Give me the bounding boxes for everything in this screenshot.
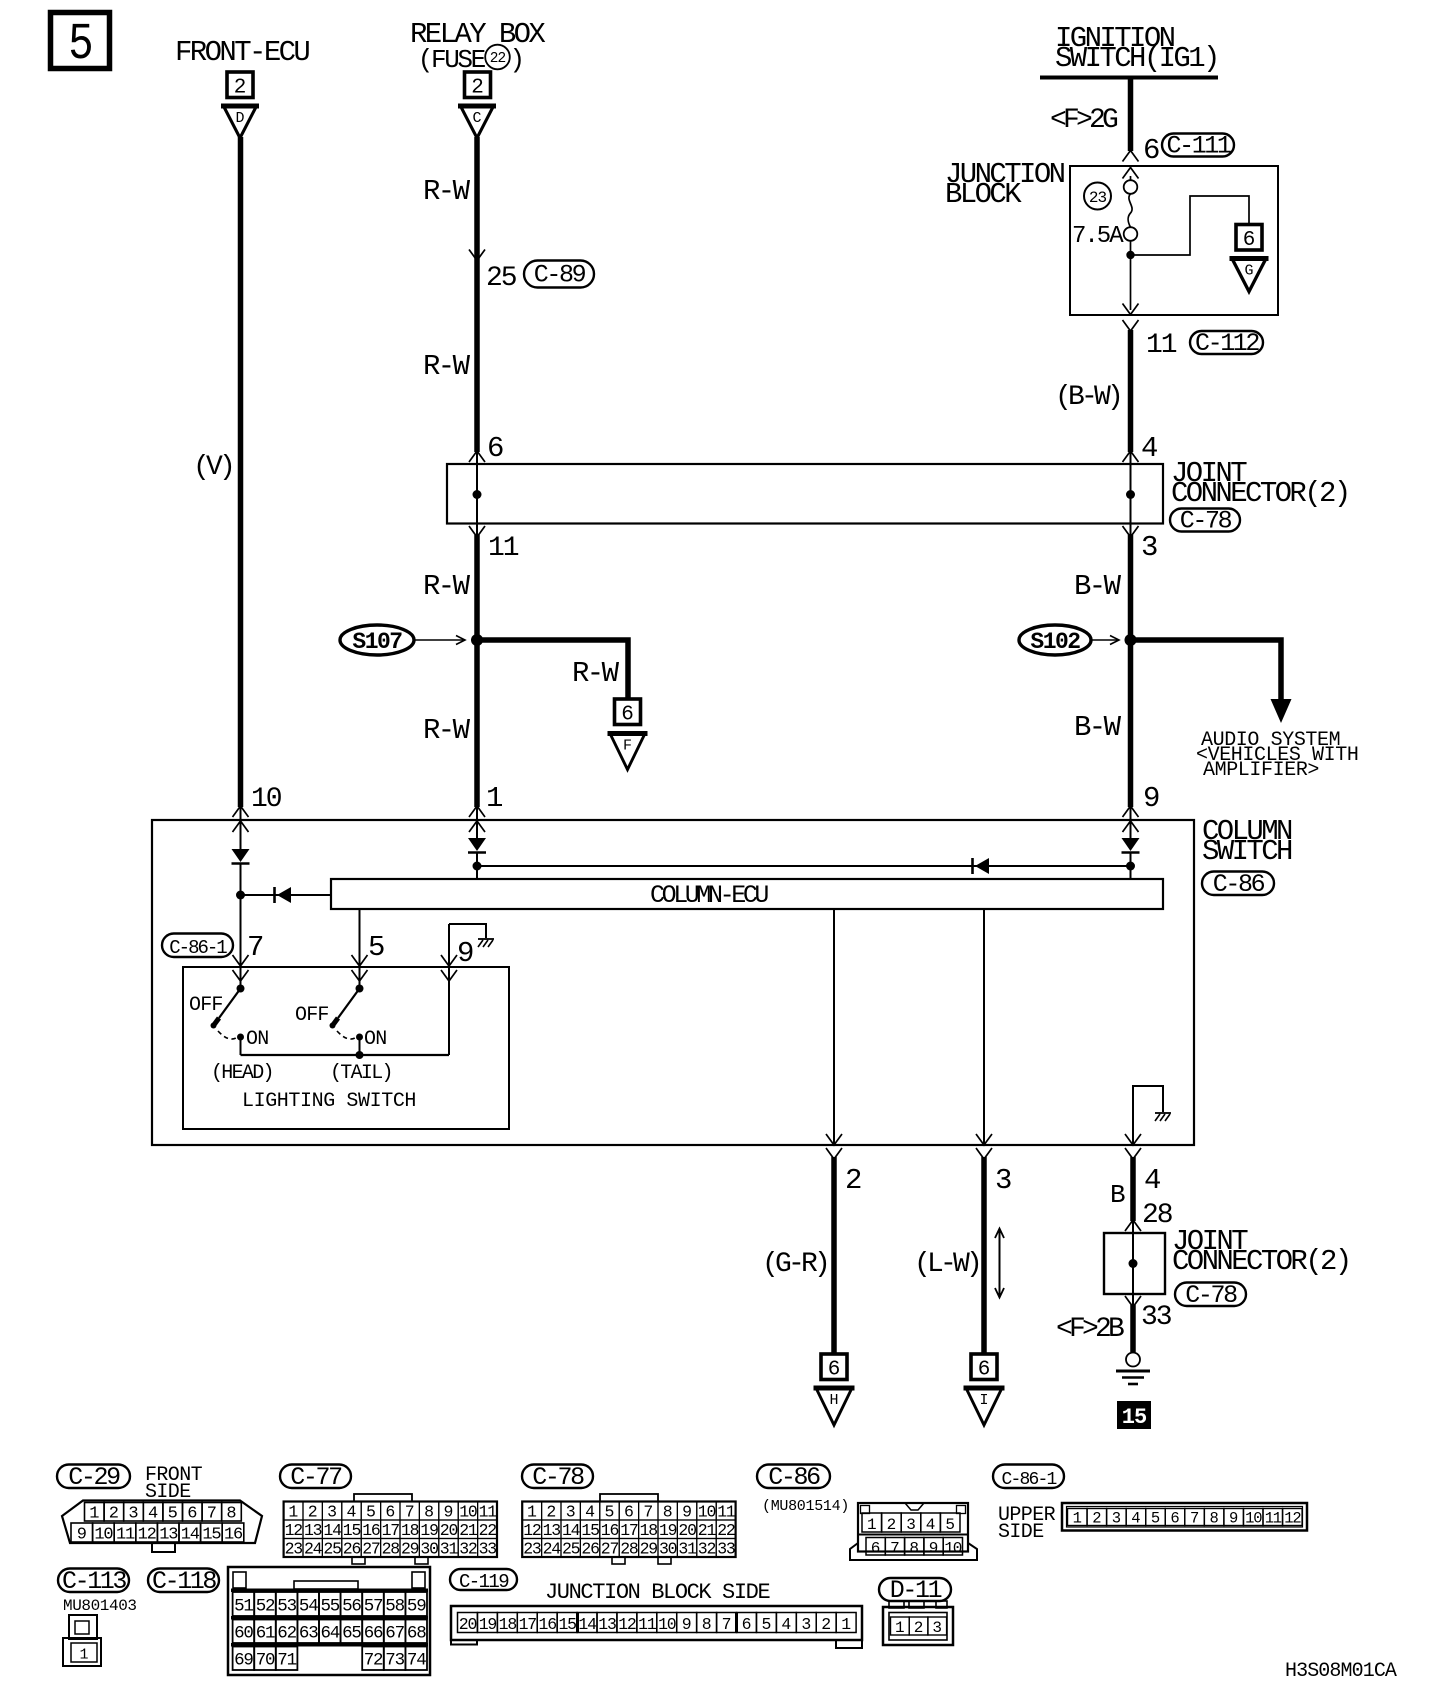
svg-text:7: 7 (405, 1502, 415, 1521)
lighting switch box (183, 967, 509, 1129)
column switch box C-86 (152, 820, 1194, 1145)
junction block box (1070, 166, 1278, 315)
connector drawing C-77 (354, 1494, 412, 1502)
svg-text:74: 74 (407, 1651, 426, 1671)
svg-text:65: 65 (342, 1624, 361, 1644)
svg-text:62: 62 (277, 1624, 296, 1644)
svg-text:11: 11 (1265, 1510, 1282, 1528)
svg-text:1: 1 (79, 1647, 88, 1664)
node junction block splice (1126, 251, 1134, 259)
connector box 2 (FRONT-ECU) (227, 72, 253, 98)
svg-text:26: 26 (581, 1539, 599, 1558)
svg-text:12: 12 (1284, 1510, 1301, 1528)
lighting entry chevrons pin5 (352, 955, 368, 966)
body ground symbol (1126, 1353, 1140, 1367)
svg-text:2: 2 (546, 1502, 556, 1521)
diode pin 9 line (1130, 806, 1132, 838)
svg-text:3: 3 (995, 1164, 1012, 1197)
svg-text:4: 4 (585, 1502, 595, 1521)
svg-text:18: 18 (499, 1615, 517, 1634)
svg-text:8: 8 (226, 1505, 236, 1524)
connector drawing C-86 (858, 1503, 968, 1552)
switch TAIL ON contact (356, 1034, 363, 1041)
ground reference 15 black box (1117, 1401, 1151, 1429)
wire pin 4 ground hook (1133, 1086, 1163, 1144)
svg-text:C: C (472, 110, 481, 127)
svg-text:20: 20 (678, 1521, 696, 1540)
svg-text:54: 54 (299, 1597, 318, 1617)
svg-text:7: 7 (207, 1505, 217, 1524)
svg-text:ON: ON (364, 1028, 386, 1051)
svg-text:17: 17 (519, 1615, 537, 1634)
svg-text:6: 6 (624, 1502, 634, 1521)
svg-text:51: 51 (234, 1597, 253, 1617)
arrow S102 to node (1091, 639, 1118, 641)
svg-text:LIGHTING SWITCH: LIGHTING SWITCH (242, 1090, 416, 1113)
wire TAIL ON to bus (359, 1037, 361, 1055)
diode pin 1 line (476, 806, 478, 838)
svg-text:32: 32 (698, 1539, 716, 1558)
svg-text:C-86-1: C-86-1 (1001, 1470, 1056, 1490)
page number box 5 (51, 13, 110, 69)
svg-text:C-112: C-112 (1195, 329, 1259, 358)
wire pin 3 output (981, 1157, 987, 1354)
svg-text:19: 19 (479, 1615, 497, 1634)
internal bus wire with diode (477, 865, 1131, 867)
svg-text:3: 3 (932, 1619, 942, 1637)
svg-text:15: 15 (581, 1521, 599, 1540)
svg-text:21: 21 (698, 1521, 717, 1540)
svg-text:28: 28 (382, 1539, 400, 1558)
lighting entry chevrons pin7 (233, 955, 249, 966)
wire to body ground (1130, 1305, 1136, 1352)
svg-text:29: 29 (401, 1539, 419, 1558)
svg-text:9: 9 (682, 1615, 692, 1634)
svg-text:1: 1 (1073, 1510, 1082, 1528)
svg-text:5: 5 (1151, 1510, 1160, 1528)
svg-text:9: 9 (929, 1540, 939, 1558)
svg-text:7: 7 (890, 1540, 900, 1558)
wire through joint connector right (1130, 452, 1132, 536)
svg-text:1: 1 (89, 1505, 99, 1524)
wire column-ecu to lighting switch pin 5 (359, 909, 361, 988)
svg-text:9: 9 (682, 1502, 692, 1521)
svg-text:R-W: R-W (423, 175, 471, 208)
svg-text:22: 22 (479, 1521, 497, 1540)
svg-text:(V): (V) (193, 452, 232, 483)
svg-text:7: 7 (643, 1502, 653, 1521)
double arrow (L-W) (999, 1230, 1001, 1296)
svg-text:23: 23 (285, 1539, 303, 1558)
node left internal (236, 891, 245, 900)
svg-text:11: 11 (488, 533, 519, 564)
svg-text:32: 32 (459, 1539, 477, 1558)
connector C-89 pass-through chevron (469, 250, 485, 261)
svg-text:3: 3 (801, 1615, 811, 1634)
svg-text:16: 16 (539, 1615, 557, 1634)
svg-text:JUNCTION BLOCK SIDE: JUNCTION BLOCK SIDE (545, 1580, 770, 1605)
lighting switch output bus (241, 1054, 450, 1056)
svg-text:13: 13 (543, 1521, 561, 1540)
svg-text:BLOCK: BLOCK (945, 178, 1022, 211)
svg-text:24: 24 (304, 1539, 323, 1558)
svg-text:C-78: C-78 (1185, 1281, 1237, 1310)
svg-text:CONNECTOR(2): CONNECTOR(2) (1172, 1245, 1350, 1278)
svg-text:73: 73 (385, 1651, 404, 1671)
svg-text:9: 9 (1229, 1510, 1238, 1528)
svg-text:5: 5 (366, 1502, 376, 1521)
svg-text:5: 5 (68, 16, 93, 74)
svg-text:29: 29 (640, 1539, 658, 1558)
svg-text:H3S08M01CA: H3S08M01CA (1285, 1660, 1397, 1683)
svg-text:1: 1 (841, 1615, 851, 1634)
svg-text:3: 3 (906, 1516, 916, 1534)
switch TAIL common node (356, 985, 364, 993)
svg-text:6: 6 (385, 1502, 395, 1521)
svg-text:6: 6 (978, 1358, 991, 1381)
svg-text:C-119: C-119 (459, 1571, 509, 1593)
svg-text:R-W: R-W (572, 657, 620, 690)
svg-text:66: 66 (364, 1624, 383, 1644)
fuse 23 symbol (1130, 176, 1132, 180)
svg-text:8: 8 (702, 1615, 712, 1634)
svg-text:30: 30 (420, 1539, 438, 1558)
svg-text:5: 5 (945, 1516, 955, 1534)
svg-text:9: 9 (444, 1502, 454, 1521)
svg-text:R-W: R-W (423, 350, 471, 383)
exit chevrons x=834 (826, 1134, 842, 1145)
svg-text:19: 19 (420, 1521, 438, 1540)
svg-text:18: 18 (640, 1521, 658, 1540)
connector label C-78 bottom (1175, 1283, 1246, 1307)
svg-text:F: F (623, 738, 632, 755)
svg-text:1: 1 (867, 1516, 877, 1534)
triangle D (FRONT-ECU takeoff) (224, 106, 257, 138)
svg-text:8: 8 (663, 1502, 673, 1521)
junction block exit chevrons (1123, 304, 1139, 315)
svg-text:C-86-1: C-86-1 (169, 937, 227, 959)
svg-text:30: 30 (659, 1539, 677, 1558)
connector label C-112 (1190, 331, 1263, 354)
svg-text:33: 33 (717, 1539, 735, 1558)
arrowhead audio system (1271, 699, 1292, 723)
connector box 6 (branch F) (615, 699, 641, 725)
svg-text:6: 6 (187, 1505, 197, 1524)
joint connector(2) C-78 long box (447, 464, 1163, 524)
svg-text:13: 13 (159, 1526, 178, 1545)
svg-text:B: B (1110, 1180, 1126, 1210)
svg-text:60: 60 (234, 1624, 253, 1644)
wire pin 2 output (831, 1157, 837, 1354)
svg-text:ON: ON (246, 1028, 268, 1051)
svg-text:C-29: C-29 (68, 1463, 120, 1492)
connector label C-29 (57, 1465, 130, 1489)
svg-text:12: 12 (618, 1615, 636, 1634)
svg-text:6: 6 (871, 1540, 881, 1558)
svg-text:6: 6 (621, 703, 634, 726)
svg-text:7: 7 (722, 1615, 732, 1634)
svg-text:COLUMN-ECU: COLUMN-ECU (650, 881, 768, 910)
svg-text:17: 17 (382, 1521, 400, 1540)
svg-text:7.5A: 7.5A (1072, 223, 1124, 250)
svg-text:C-77: C-77 (290, 1463, 342, 1492)
svg-text:4: 4 (1131, 1510, 1140, 1528)
svg-text:26: 26 (343, 1539, 361, 1558)
svg-text:24: 24 (543, 1539, 562, 1558)
svg-text:8: 8 (1209, 1510, 1218, 1528)
svg-text:3: 3 (1112, 1510, 1121, 1528)
switch TAIL dashed travel (337, 1031, 355, 1039)
svg-text:11: 11 (717, 1502, 736, 1521)
svg-text:33: 33 (1141, 1302, 1172, 1333)
svg-text:22: 22 (717, 1521, 735, 1540)
svg-text:R-W: R-W (423, 714, 471, 747)
svg-text:1: 1 (288, 1502, 298, 1521)
svg-text:55: 55 (320, 1597, 339, 1617)
wire junction block internal branch (1131, 196, 1250, 255)
triangle G (ground feed) (1232, 259, 1266, 292)
svg-text:(HEAD): (HEAD) (211, 1062, 273, 1085)
svg-text:10: 10 (251, 784, 282, 815)
connector box 6 (junction block) (1236, 225, 1262, 251)
svg-text:57: 57 (364, 1597, 383, 1617)
svg-text:6: 6 (487, 432, 504, 465)
svg-text:C-78: C-78 (1180, 507, 1232, 536)
connector label C-113 (58, 1569, 129, 1593)
svg-text:4: 4 (1141, 432, 1158, 465)
svg-text:23: 23 (1089, 189, 1107, 207)
svg-text:53: 53 (277, 1597, 296, 1617)
svg-text:FRONT-ECU: FRONT-ECU (175, 36, 309, 69)
svg-text:10: 10 (459, 1502, 477, 1521)
svg-text:12: 12 (285, 1521, 303, 1540)
svg-text:25: 25 (323, 1539, 341, 1558)
node joint connector right (1126, 490, 1135, 499)
wire HEAD ON to bus (240, 1037, 242, 1055)
svg-text:D: D (235, 110, 244, 127)
svg-text:9: 9 (1143, 782, 1160, 815)
svg-text:7: 7 (1190, 1510, 1199, 1528)
node right internal (1126, 862, 1135, 871)
svg-text:I: I (979, 1392, 988, 1409)
svg-text:2: 2 (914, 1619, 924, 1637)
svg-text:71: 71 (277, 1651, 296, 1671)
svg-text:52: 52 (256, 1597, 275, 1617)
svg-text:4: 4 (347, 1502, 357, 1521)
svg-text:G: G (1244, 263, 1253, 280)
svg-text:3: 3 (566, 1502, 576, 1521)
connector label C-89 (524, 261, 594, 288)
svg-text:2: 2 (308, 1502, 318, 1521)
svg-text:2: 2 (821, 1615, 831, 1634)
svg-text:11: 11 (116, 1526, 135, 1545)
wire column-ecu to pin 2 (833, 909, 835, 1144)
svg-text:20: 20 (459, 1615, 477, 1634)
wire branch to audio system (1131, 640, 1282, 701)
svg-text:10: 10 (1245, 1510, 1262, 1528)
switch HEAD blade (219, 989, 241, 1019)
svg-text:S107: S107 (352, 629, 402, 655)
connector label C-78 top (1170, 509, 1240, 532)
svg-text:16: 16 (362, 1521, 380, 1540)
svg-text:15: 15 (202, 1526, 221, 1545)
COLUMN-ECU box (331, 879, 1163, 909)
wire pin9 diode to node (1130, 852, 1132, 879)
svg-text:OFF: OFF (295, 1004, 329, 1027)
svg-text:(MU801514): (MU801514) (762, 1498, 849, 1515)
svg-text:2: 2 (234, 76, 247, 99)
svg-text:C-111: C-111 (1166, 132, 1230, 161)
svg-text:3: 3 (128, 1505, 138, 1524)
svg-text:11: 11 (479, 1502, 498, 1521)
svg-text:R-W: R-W (423, 570, 471, 603)
wire down to lighting switch pin 7 (240, 895, 242, 988)
svg-text:1: 1 (486, 782, 503, 815)
svg-text:10: 10 (944, 1540, 961, 1558)
connector drawing C-113 (69, 1615, 97, 1639)
connector drawing C-29 (62, 1501, 262, 1544)
svg-text:22: 22 (490, 51, 506, 67)
svg-text:20: 20 (440, 1521, 458, 1540)
svg-text:C-78: C-78 (532, 1463, 584, 1492)
svg-text:10: 10 (94, 1526, 113, 1545)
svg-text:59: 59 (407, 1597, 426, 1617)
svg-text:SWITCH: SWITCH (1202, 835, 1292, 868)
svg-text:58: 58 (385, 1597, 404, 1617)
svg-text:16: 16 (224, 1526, 243, 1545)
wire pin9 to ground hook (448, 924, 450, 1055)
svg-text:2: 2 (471, 76, 484, 99)
svg-text:25: 25 (486, 263, 517, 294)
svg-text:6: 6 (742, 1615, 752, 1634)
wire FRONT-ECU vertical (V) x=240 (238, 137, 244, 807)
svg-text:23: 23 (523, 1539, 541, 1558)
connector label C-119 (450, 1569, 517, 1590)
svg-text:21: 21 (459, 1521, 478, 1540)
svg-text:31: 31 (678, 1539, 697, 1558)
svg-text:6: 6 (1170, 1510, 1179, 1528)
svg-text:15: 15 (1122, 1405, 1147, 1430)
svg-text:13: 13 (304, 1521, 322, 1540)
wire through joint connector left (476, 452, 478, 536)
svg-text:<F>2B: <F>2B (1056, 1314, 1124, 1345)
lighting entry chevrons pin9 (441, 955, 457, 966)
triangle C (RELAY BOX takeoff) (461, 106, 494, 138)
switch HEAD common node (237, 985, 245, 993)
svg-text:15: 15 (343, 1521, 361, 1540)
svg-text:5: 5 (761, 1615, 771, 1634)
triangle F (610, 734, 645, 770)
svg-text:64: 64 (320, 1624, 339, 1644)
connector label C-86 legend (757, 1465, 830, 1489)
svg-text:12: 12 (523, 1521, 541, 1540)
svg-text:31: 31 (440, 1539, 459, 1558)
svg-text:(B-W): (B-W) (1055, 382, 1120, 413)
svg-text:56: 56 (342, 1597, 361, 1617)
svg-text:8: 8 (424, 1502, 434, 1521)
connector label C-86 right (1202, 872, 1274, 896)
svg-text:8: 8 (909, 1540, 919, 1558)
wire R-W relay box to joint connector (474, 137, 480, 452)
svg-text:14: 14 (181, 1526, 200, 1545)
connector label C-77 (280, 1465, 351, 1489)
svg-text:B-W: B-W (1074, 570, 1122, 603)
connector label C-111 (1162, 134, 1234, 157)
chassis ground (column switch pin4) (1155, 1112, 1171, 1114)
label (C-86-1) (162, 934, 233, 958)
wire ignition switch to junction block (1128, 77, 1134, 151)
svg-text:C-118: C-118 (152, 1567, 216, 1596)
entry chevrons pin 10 (233, 806, 249, 817)
exit chevrons x=1133 (1125, 1134, 1141, 1145)
svg-text:1: 1 (527, 1502, 537, 1521)
svg-text:(L-W): (L-W) (914, 1249, 979, 1280)
svg-text:27: 27 (362, 1539, 380, 1558)
svg-text:C-89: C-89 (534, 261, 586, 290)
svg-text:14: 14 (578, 1615, 597, 1634)
svg-text:28: 28 (620, 1539, 638, 1558)
switch TAIL blade (338, 989, 360, 1019)
connector drawing C-118 (228, 1567, 430, 1675)
svg-text:3: 3 (327, 1502, 337, 1521)
connector drawing D-11 (889, 1601, 904, 1608)
connector label C-118 (148, 1569, 219, 1593)
exit chevrons x=984 (976, 1134, 992, 1145)
svg-text:4: 4 (1144, 1164, 1161, 1197)
svg-text:C-86: C-86 (768, 1463, 820, 1492)
svg-text:12: 12 (138, 1526, 156, 1545)
wire B-W joint connector to column switch (1128, 535, 1134, 807)
svg-text:13: 13 (598, 1615, 616, 1634)
chassis ground (lighting switch) (478, 938, 494, 940)
splice S107 (340, 625, 414, 655)
svg-text:17: 17 (620, 1521, 638, 1540)
svg-text:2: 2 (109, 1505, 119, 1524)
diode to column-ecu left (241, 894, 332, 896)
splice S102 (1019, 625, 1091, 655)
svg-text:5: 5 (368, 931, 385, 964)
connector label D-11 (879, 1578, 951, 1601)
ignition switch bus bar (1040, 76, 1218, 80)
svg-text:4: 4 (148, 1505, 158, 1524)
node S102 splice (1125, 634, 1137, 646)
switch HEAD dashed travel (218, 1031, 236, 1039)
svg-text:28: 28 (1142, 1200, 1172, 1231)
svg-text:9: 9 (457, 937, 474, 970)
svg-text:SWITCH(IG1): SWITCH(IG1) (1055, 42, 1218, 75)
svg-text:6: 6 (1143, 134, 1160, 167)
svg-text:9: 9 (77, 1526, 87, 1545)
svg-text:4: 4 (781, 1615, 791, 1634)
arrow S107 to node (414, 639, 464, 641)
svg-text:CONNECTOR(2): CONNECTOR(2) (1171, 477, 1349, 510)
svg-text:5: 5 (605, 1502, 615, 1521)
svg-text:10: 10 (658, 1615, 676, 1634)
svg-text:18: 18 (401, 1521, 419, 1540)
svg-text:67: 67 (385, 1624, 404, 1644)
svg-text:1: 1 (895, 1619, 905, 1637)
wire pin10 diode to node (240, 863, 242, 895)
wire (B-W) junction block to joint connector (1128, 330, 1134, 452)
svg-text:27: 27 (601, 1539, 619, 1558)
wire column-ecu to pin 3 (983, 909, 985, 1144)
svg-text:H: H (829, 1392, 838, 1409)
svg-text:72: 72 (364, 1651, 383, 1671)
svg-text:33: 33 (479, 1539, 497, 1558)
svg-text:16: 16 (601, 1521, 619, 1540)
connector label C-78 legend (522, 1465, 593, 1489)
wire pin 4 output (1130, 1157, 1136, 1221)
